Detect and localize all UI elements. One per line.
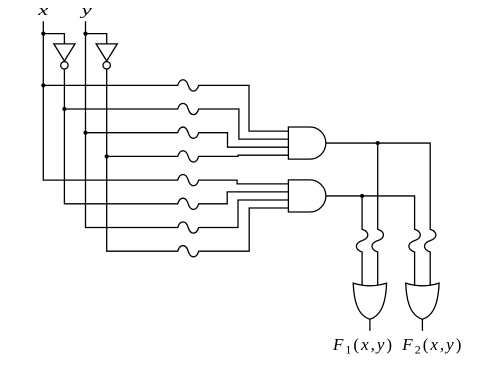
svg-text:F1(x,y): F1(x,y) — [332, 335, 394, 357]
svg-text:y: y — [79, 3, 93, 19]
svg-text:F2(x,y): F2(x,y) — [401, 335, 463, 357]
svg-text:x: x — [37, 3, 49, 19]
